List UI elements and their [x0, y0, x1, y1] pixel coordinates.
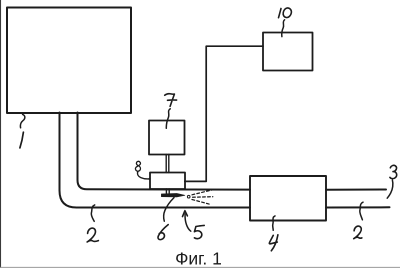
spray droplet	[187, 195, 190, 198]
nozzle needle 5	[161, 194, 184, 197]
label 2 right	[354, 226, 362, 239]
label 3 leader	[387, 180, 393, 198]
label 5	[194, 225, 204, 238]
label 1 leader	[20, 114, 24, 127]
label 1	[20, 132, 24, 148]
wire: double line box 7 to valve	[166, 155, 169, 173]
label 10 leader	[282, 20, 285, 37]
wire: pipe lower wall right of box 4	[326, 206, 390, 208]
wire: pipe outer wall (left vertical + elbow + lower horizontal)	[60, 113, 251, 208]
wire: pipe upper wall right of box 4	[326, 189, 386, 191]
spray ray lower	[192, 200, 210, 205]
label 4	[269, 235, 278, 251]
label 8 leader	[138, 172, 150, 179]
box 1 (tank)	[7, 8, 131, 114]
label 7 leader	[166, 109, 170, 129]
label 10	[279, 8, 292, 18]
spray ray upper	[192, 190, 212, 195]
label 5 arrow	[185, 214, 191, 231]
wire: pipe inner wall (right vertical + elbow + upper horizontal)	[78, 113, 251, 190]
label 6 leader	[164, 198, 174, 222]
wire: box 10 to valve connector	[185, 46, 263, 181]
label 5 arrowhead	[183, 211, 188, 217]
box 4 (pump)	[250, 176, 326, 221]
label 8	[135, 161, 140, 171]
box 10 (control unit)	[263, 33, 313, 71]
spray ray middle	[193, 196, 213, 199]
label 2 left leader	[91, 205, 94, 221]
label 3	[390, 165, 397, 178]
label 2 left	[87, 228, 98, 242]
label 6	[158, 225, 168, 240]
box 7 (reservoir)	[149, 121, 185, 155]
label 2 right leader	[360, 202, 363, 220]
svg-text:Фиг. 1: Фиг. 1	[175, 249, 222, 268]
label 4 leader	[273, 216, 275, 230]
wire: nozzle stub	[166, 189, 169, 194]
valve body 6	[150, 173, 185, 190]
label 7	[165, 94, 177, 107]
